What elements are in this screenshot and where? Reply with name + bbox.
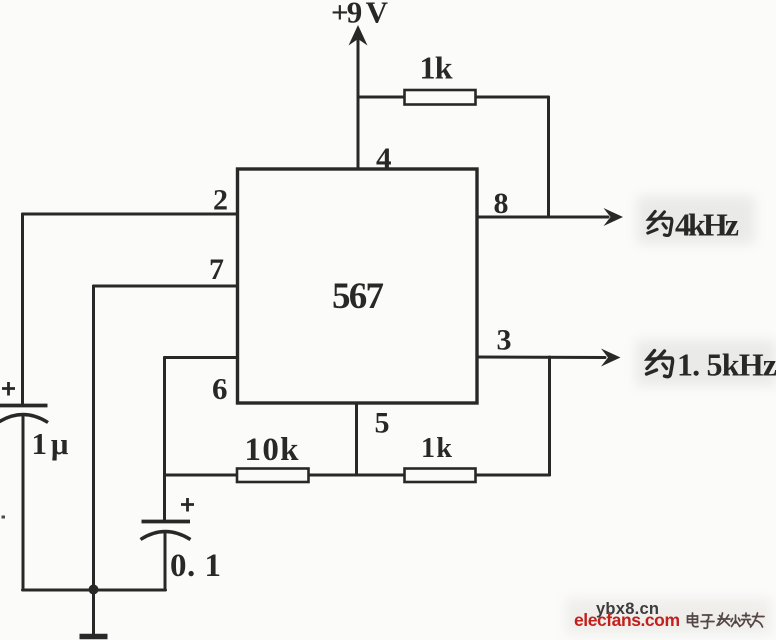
wire: pin 2 down to C1 — [21, 214, 24, 404]
capacitor C2 polarity plus — [181, 498, 194, 512]
wire: C2 to bottom rail — [164, 533, 167, 590]
watermark 电子发烧友 — [688, 613, 765, 628]
svg-text:6: 6 — [212, 371, 228, 406]
ground junction dot — [89, 585, 99, 595]
wire: node down to C2 — [163, 475, 166, 520]
capacitor C1 1u plates — [0, 404, 48, 408]
wire: bottom rail to R2 — [165, 474, 238, 477]
resistor R3 1k (bottom right) — [405, 469, 476, 483]
wire: junction to ground — [92, 590, 95, 634]
pin 8 wire — [477, 216, 608, 219]
ground symbol — [80, 634, 108, 640]
wire: corner down to pin 8 line — [547, 97, 550, 217]
bottom rail wire — [23, 589, 166, 592]
wire: pin3 corner down to R3 — [548, 357, 551, 475]
wire: R1 right side to corner — [475, 96, 549, 99]
faint scan-noise patch behind 1.5kHz label — [636, 340, 776, 386]
wire: Vcc branch to R1 — [358, 96, 406, 99]
+9V supply arrow — [349, 25, 368, 46]
wire: R2 to R3 — [308, 474, 405, 477]
svg-text:8: 8 — [494, 187, 509, 220]
svg-text:+9 V: +9 V — [331, 0, 389, 30]
svg-text:1k: 1k — [420, 50, 453, 86]
wire: R3 right side — [476, 474, 550, 477]
pin 8 output arrow — [604, 208, 624, 226]
svg-text:7: 7 — [209, 253, 224, 286]
wire: pin 6 down to R2/C2 node — [163, 358, 166, 476]
svg-text:4: 4 — [376, 141, 392, 176]
svg-text:1μ: 1μ — [32, 426, 69, 461]
IC U1 567 — [238, 169, 478, 403]
svg-text:elecfans.com: elecfans.com — [574, 610, 680, 630]
faint scan-noise patch behind 4kHz label — [637, 196, 755, 244]
pin 6 wire — [165, 356, 238, 359]
svg-text:0. 1: 0. 1 — [170, 548, 221, 584]
resistor R1 1k (top) — [405, 90, 476, 105]
wire: pin 7 down to ground junction — [92, 286, 95, 590]
svg-text:2: 2 — [213, 184, 228, 217]
wire: +9V supply vertical — [357, 33, 360, 171]
capacitor C1 polarity plus — [2, 382, 15, 396]
faint scan-noise patch behind watermark — [566, 598, 771, 634]
svg-text:5: 5 — [375, 407, 390, 440]
capacitor C2 0.1 plates — [142, 520, 191, 524]
svg-text:567: 567 — [332, 276, 384, 317]
resistor R2 10k (bottom left) — [237, 469, 309, 483]
wire: C1 to bottom rail — [22, 416, 25, 590]
output label character 约 (4kHz line) — [648, 211, 672, 235]
pin 3 wire — [477, 356, 605, 360]
pin 3 output arrow — [601, 349, 621, 367]
pin 5 wire — [355, 403, 358, 475]
svg-text:3: 3 — [497, 324, 512, 357]
stray scan speck — [2, 516, 6, 519]
svg-text:10k: 10k — [245, 432, 300, 468]
pin 2 wire — [23, 213, 238, 216]
output label character 约 (1.5kHz line) — [647, 351, 673, 377]
pin 7 wire — [94, 285, 238, 288]
svg-text:1. 5kHz: 1. 5kHz — [677, 347, 776, 383]
svg-text:4kHz: 4kHz — [675, 207, 739, 243]
svg-text:1k: 1k — [421, 433, 452, 464]
